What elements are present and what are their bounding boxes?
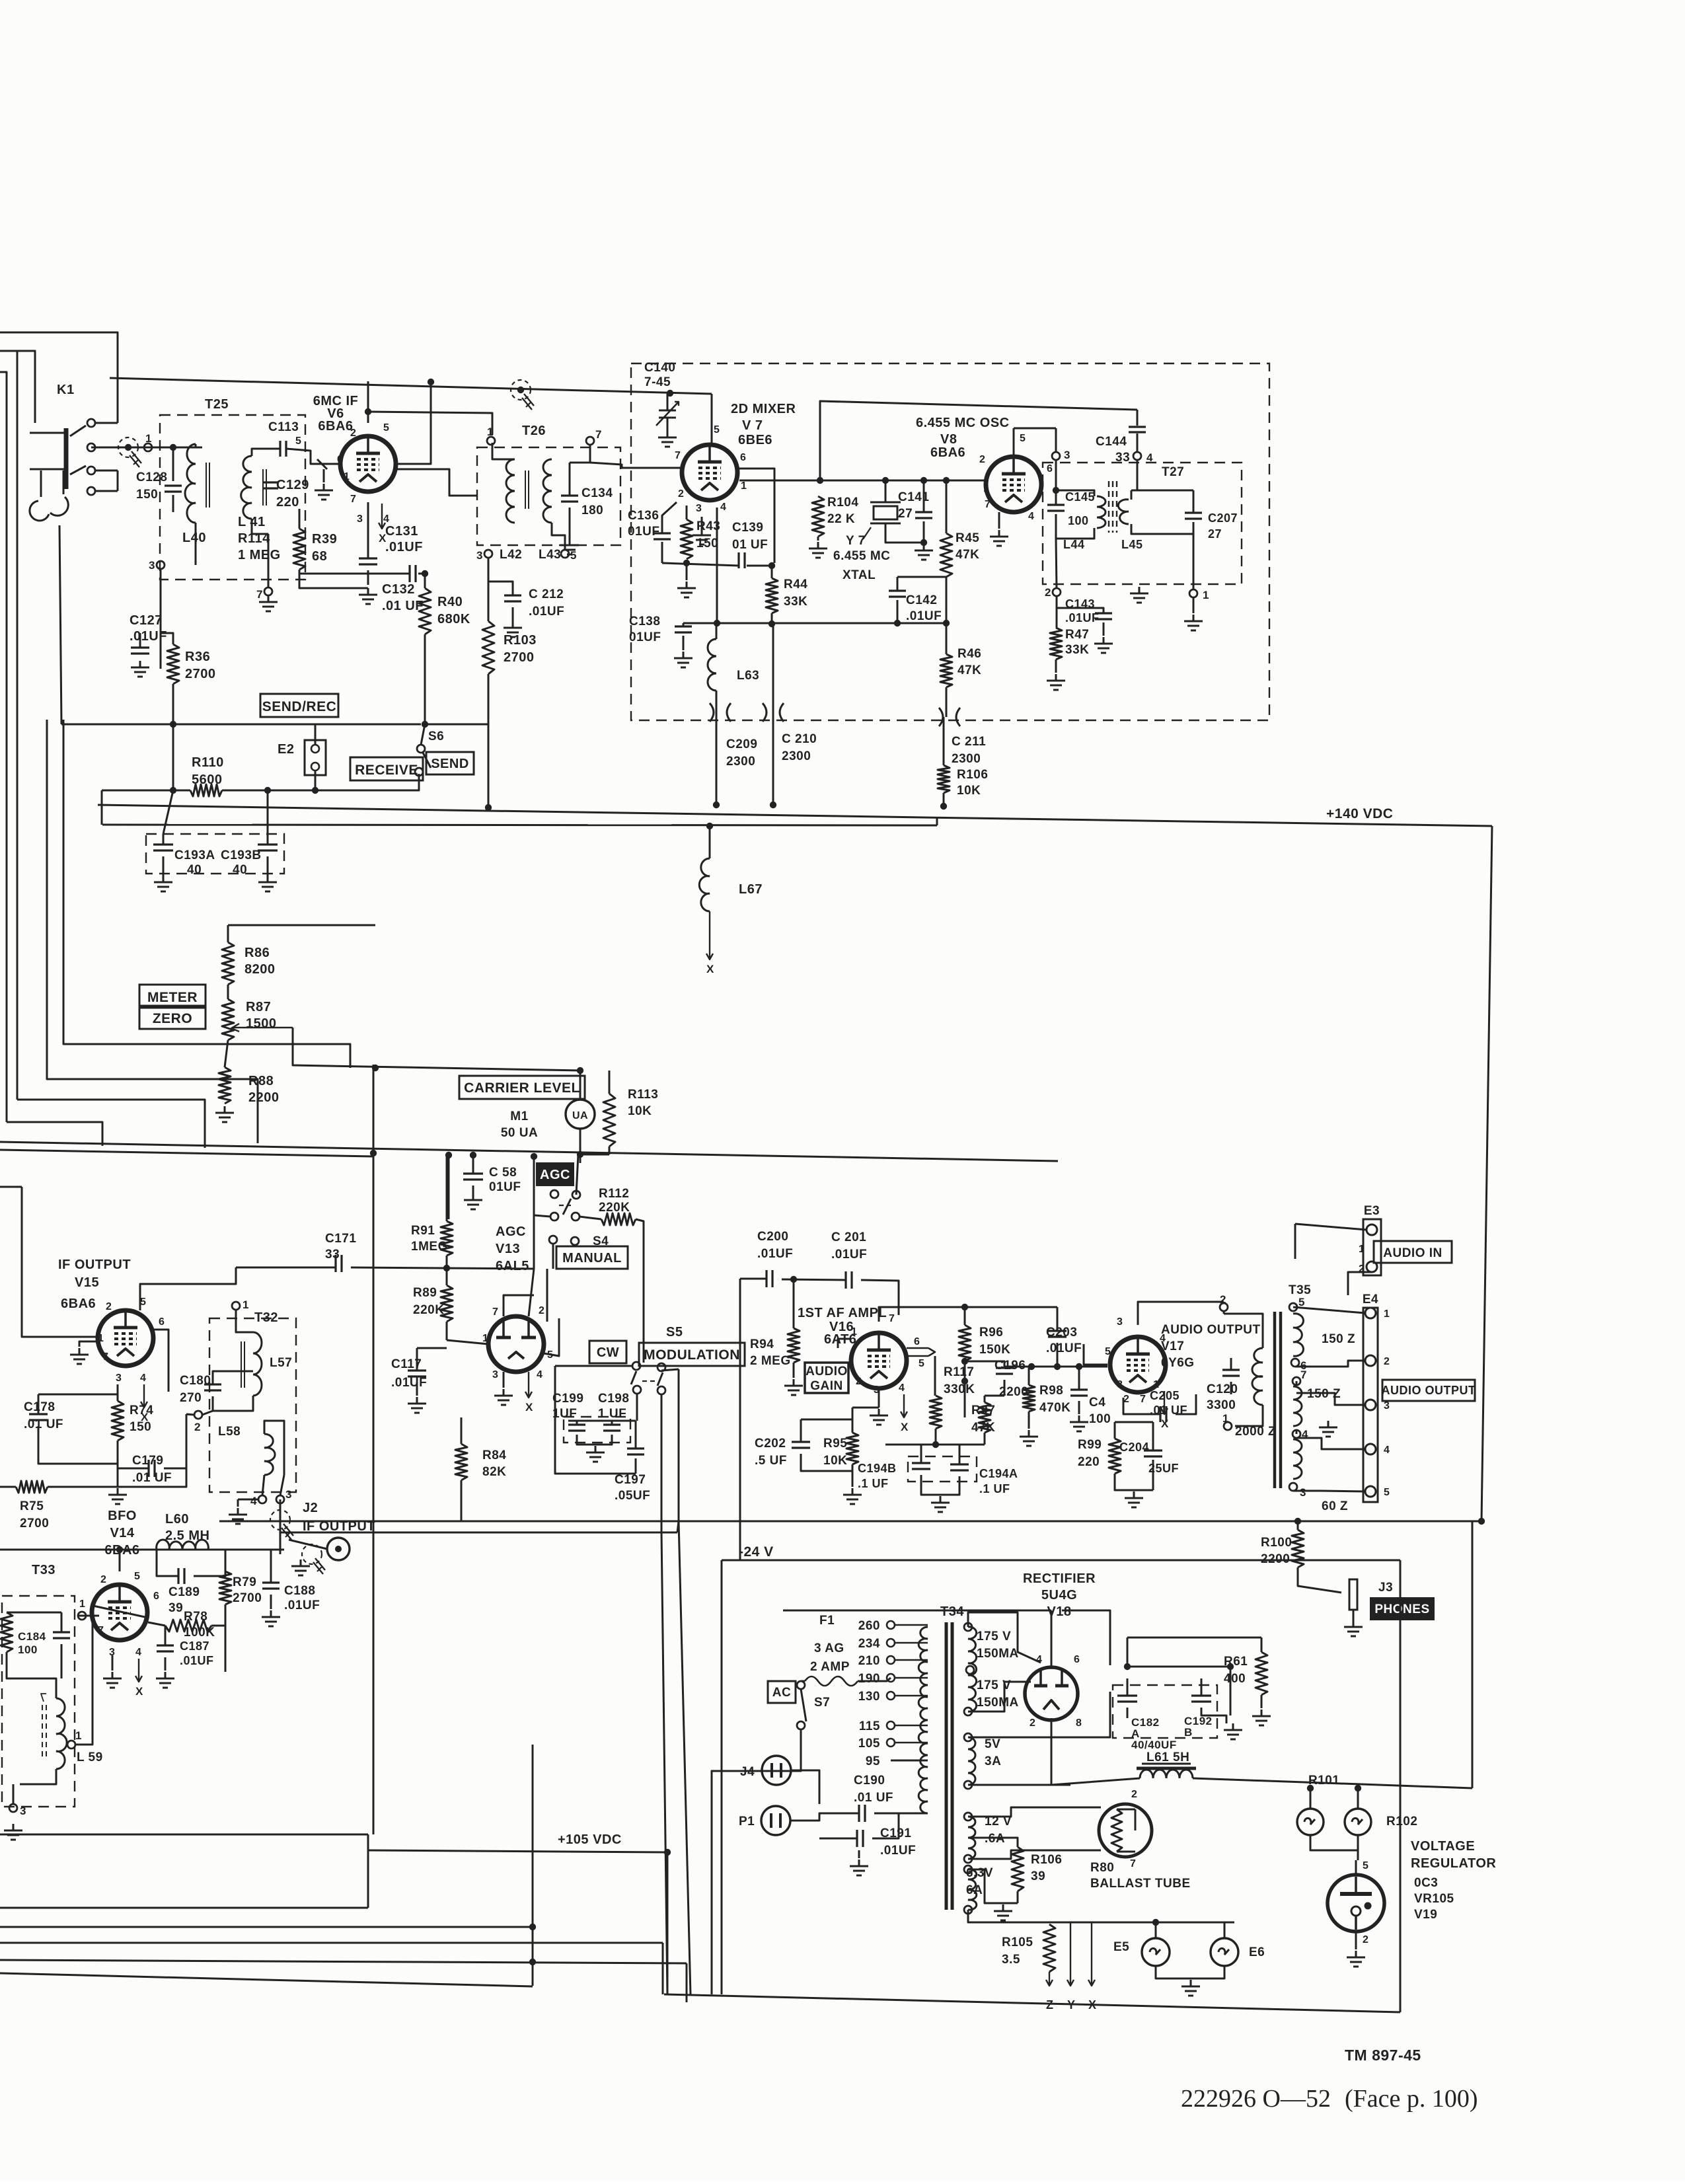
svg-text:2: 2 <box>1030 1717 1035 1729</box>
svg-text:R79: R79 <box>233 1575 256 1589</box>
wire <box>968 1692 1110 1737</box>
wire <box>897 576 946 578</box>
wire <box>61 1612 63 1632</box>
svg-text:6: 6 <box>914 1336 920 1347</box>
grommet J2 wire A <box>270 1510 293 1540</box>
ground V14 cathode <box>103 1672 122 1688</box>
svg-text:4: 4 <box>537 1369 543 1380</box>
svg-text:C 58: C 58 <box>489 1166 517 1180</box>
node Y7 label2 <box>833 549 890 563</box>
svg-text:C199: C199 <box>552 1392 583 1406</box>
note print code <box>1181 2085 1478 2113</box>
terminal T25 pin1 <box>144 432 152 451</box>
node R105 label <box>1002 1936 1033 1967</box>
wire <box>227 925 229 942</box>
svg-text:S6: S6 <box>428 730 444 743</box>
junction <box>1124 1663 1131 1670</box>
svg-text:C 210: C 210 <box>782 732 817 746</box>
svg-text:T25: T25 <box>205 397 229 412</box>
capacitor C196 <box>996 1368 1013 1374</box>
svg-text:150MA: 150MA <box>977 1696 1019 1710</box>
capacitor C127 <box>131 648 149 654</box>
terminal T34 ct <box>966 1666 974 1674</box>
wire <box>211 1625 225 1627</box>
switch label MODULATION <box>639 1343 745 1366</box>
svg-text:10K: 10K <box>957 784 981 798</box>
node C200 label <box>757 1230 793 1261</box>
wire <box>635 1458 637 1474</box>
svg-text:C194B: C194B <box>858 1462 897 1475</box>
svg-text:AUDIO: AUDIO <box>805 1365 848 1378</box>
node V7 designation 3 <box>738 433 772 447</box>
capacitor C182A <box>1117 1696 1137 1702</box>
wire <box>503 1372 505 1388</box>
svg-text:C179: C179 <box>132 1454 163 1468</box>
wire <box>118 1468 149 1470</box>
svg-text:C145: C145 <box>1065 490 1095 504</box>
node 0C3 label <box>1414 1876 1454 1922</box>
wire <box>280 1499 281 1537</box>
node 150Z top label <box>1322 1332 1355 1346</box>
capacitor C134 <box>561 496 578 502</box>
wire <box>923 521 925 543</box>
wire <box>38 1426 118 1464</box>
terminal T34 sec bot <box>964 1708 972 1715</box>
wire <box>1176 1394 1196 1414</box>
svg-text:METER: METER <box>147 990 198 1005</box>
node C139 label <box>732 521 768 552</box>
resistor R106 <box>938 765 950 793</box>
svg-text:3: 3 <box>696 503 702 514</box>
wire <box>552 1244 554 1269</box>
terminal T26 pin3 <box>476 549 492 562</box>
diode plate R117 tie <box>907 1348 935 1356</box>
junction <box>683 560 690 566</box>
svg-text:J2: J2 <box>303 1501 318 1515</box>
svg-text:3: 3 <box>492 1369 498 1380</box>
svg-text:L58: L58 <box>218 1425 241 1439</box>
junction <box>961 1304 968 1310</box>
junction <box>706 823 713 829</box>
wire <box>7 1652 56 1698</box>
wire <box>609 1071 611 1094</box>
wire <box>576 1421 578 1425</box>
svg-text:150MA: 150MA <box>977 1647 1019 1661</box>
svg-text:4: 4 <box>1028 511 1034 522</box>
capacitor C4 <box>1070 1390 1088 1396</box>
wire <box>965 1306 1057 1308</box>
wire <box>417 1347 447 1349</box>
wire <box>267 834 269 845</box>
wire <box>1261 1695 1263 1708</box>
ground R104 <box>809 542 827 558</box>
wire <box>102 825 937 825</box>
wire <box>885 480 887 502</box>
svg-text:1: 1 <box>1359 1244 1365 1255</box>
wire <box>1057 608 1104 613</box>
svg-text:7: 7 <box>492 1306 498 1318</box>
node R91 label <box>411 1224 448 1254</box>
arrow X V17 <box>1161 1391 1169 1430</box>
wire <box>368 412 492 435</box>
svg-text:220: 220 <box>1078 1455 1100 1469</box>
resistor R99 <box>1109 1439 1121 1474</box>
terminal T34 63V a <box>964 1865 972 1873</box>
junction <box>667 390 673 396</box>
wire <box>1056 490 1094 496</box>
capacitor C187 <box>157 1645 174 1651</box>
wire <box>1131 490 1133 500</box>
svg-text:220K: 220K <box>599 1201 630 1215</box>
node C131 label <box>385 524 423 554</box>
wire <box>0 1142 1058 1161</box>
wire <box>532 1745 534 1986</box>
wire <box>885 523 924 543</box>
svg-text:2: 2 <box>106 1301 112 1312</box>
node K1 label <box>57 383 75 397</box>
svg-text:2 MEG: 2 MEG <box>750 1354 791 1368</box>
capacitor C113 <box>280 441 286 457</box>
node C191 label <box>880 1826 916 1858</box>
node C182B label <box>1184 1715 1213 1739</box>
wire <box>1051 1778 1140 1785</box>
capacitor C120 <box>1222 1370 1240 1376</box>
svg-text:1: 1 <box>1222 1412 1229 1425</box>
wire <box>165 1626 167 1645</box>
svg-text:2: 2 <box>350 428 356 439</box>
svg-text:IF OUTPUT: IF OUTPUT <box>58 1258 131 1272</box>
svg-text:R106: R106 <box>957 768 988 782</box>
svg-text:27: 27 <box>898 507 913 521</box>
wire <box>148 1622 165 1626</box>
svg-text:R91: R91 <box>411 1224 435 1238</box>
wire <box>101 790 103 825</box>
ground C134 <box>560 539 579 554</box>
inductor L45 <box>1118 500 1129 524</box>
node L44 label <box>1063 538 1085 551</box>
wire <box>793 1363 795 1378</box>
wire <box>367 502 369 558</box>
capacitor C197 <box>627 1449 644 1454</box>
node R117 value <box>944 1382 975 1396</box>
node Y7 label <box>846 534 866 548</box>
wire <box>667 393 669 410</box>
resistor R106b <box>1012 1847 1024 1891</box>
svg-text:1: 1 <box>1384 1308 1390 1320</box>
capacitor C117 <box>408 1371 426 1376</box>
wire <box>686 506 688 519</box>
svg-text:Y 7: Y 7 <box>846 534 866 548</box>
wire <box>1261 1638 1263 1652</box>
terminal T26 pin1 <box>487 426 495 445</box>
wire <box>686 1963 688 2002</box>
tube V17 6Y6G <box>1110 1337 1166 1392</box>
svg-text:.01UF: .01UF <box>831 1248 867 1261</box>
wire <box>897 577 899 591</box>
svg-text:CARRIER LEVEL: CARRIER LEVEL <box>464 1080 580 1096</box>
node C4 label <box>1089 1396 1111 1426</box>
wire <box>661 1369 679 1371</box>
capacitor C205 <box>1160 1406 1166 1422</box>
ground E5 E6 <box>1181 1980 1200 1996</box>
wire <box>416 1348 418 1371</box>
switch S7 <box>797 1681 830 1729</box>
svg-text:3: 3 <box>476 549 483 562</box>
junction <box>1227 1663 1234 1670</box>
svg-text:01UF: 01UF <box>629 630 661 644</box>
wire <box>968 1850 1101 1859</box>
wire <box>580 1154 609 1156</box>
svg-text:T32: T32 <box>254 1310 278 1325</box>
svg-text:C189: C189 <box>168 1585 200 1599</box>
svg-text:6: 6 <box>1074 1654 1080 1665</box>
svg-text:R45: R45 <box>955 531 979 545</box>
wire <box>771 613 773 624</box>
ground T35 tap <box>1319 1421 1337 1437</box>
wire <box>1055 460 1057 505</box>
wire <box>1013 428 1015 457</box>
svg-text:C187: C187 <box>180 1639 209 1653</box>
node T26 label <box>522 424 546 438</box>
capacitor C178 <box>29 1414 48 1420</box>
capacitor C182 dashed box <box>1113 1685 1217 1738</box>
junction <box>882 477 889 484</box>
wire <box>1055 659 1057 673</box>
wire <box>61 1644 63 1678</box>
wire <box>858 1678 891 1681</box>
wire <box>1017 1891 1019 1903</box>
wire <box>236 1310 253 1332</box>
svg-text:R78: R78 <box>184 1610 207 1624</box>
wire <box>0 1942 663 1944</box>
capacitor C191 <box>857 1830 863 1847</box>
ground C141 <box>915 544 933 560</box>
svg-text:01 UF: 01 UF <box>732 538 768 552</box>
crystal Y7 <box>870 502 901 523</box>
terminal T32 pin3 <box>276 1488 292 1503</box>
wire <box>819 1838 857 1840</box>
capacitor C142 <box>889 591 906 597</box>
svg-text:+140 VDC: +140 VDC <box>1326 806 1393 821</box>
inductor L59 <box>56 1698 67 1769</box>
wire <box>1055 428 1057 452</box>
transformer T34 5V winding <box>968 1737 975 1785</box>
relay K1 upper contacts <box>30 378 118 495</box>
svg-text:6BA6: 6BA6 <box>930 445 965 460</box>
wire <box>17 351 19 1100</box>
svg-text:60 Z: 60 Z <box>1322 1499 1348 1513</box>
wire grid stopper <box>317 459 327 469</box>
svg-text:2: 2 <box>100 1574 106 1585</box>
wire <box>315 724 317 745</box>
junction <box>372 1065 379 1071</box>
wire <box>801 1680 805 1682</box>
node C201 label <box>831 1230 867 1261</box>
node V7 designation 2 <box>742 418 763 433</box>
mixer-oscillator section dashed box <box>631 363 1269 720</box>
wire <box>968 1612 1041 1663</box>
svg-text:R112: R112 <box>599 1187 629 1201</box>
node C204 value <box>1148 1462 1179 1475</box>
wire <box>946 577 948 654</box>
svg-text:L61 5H: L61 5H <box>1146 1751 1189 1764</box>
svg-text:5: 5 <box>1384 1487 1390 1498</box>
wire <box>48 1468 186 1487</box>
svg-text:.01 UF: .01 UF <box>24 1417 63 1431</box>
wire <box>1127 1678 1129 1696</box>
resistor R89 <box>441 1285 453 1322</box>
wire <box>791 1770 819 1804</box>
capacitor C171 <box>336 1255 342 1272</box>
wire <box>17 1100 205 1148</box>
wire <box>117 1384 119 1401</box>
wire <box>0 1960 687 1963</box>
node R78 label <box>184 1610 215 1639</box>
node E6 label <box>1249 1945 1265 1959</box>
svg-text:.01UF: .01UF <box>1046 1341 1082 1355</box>
svg-text:5: 5 <box>714 424 720 435</box>
grommet feed-through at K1 output <box>118 437 141 467</box>
wire <box>964 1307 966 1325</box>
resistor C183 zig <box>1 1612 13 1652</box>
node C145 value <box>1068 514 1089 527</box>
capacitor C143 <box>1095 613 1112 619</box>
junction <box>1028 1363 1035 1370</box>
ground V19 <box>1347 1951 1365 1967</box>
transformer T27 core <box>1109 481 1117 533</box>
wire <box>194 1550 225 1576</box>
wire <box>946 687 948 717</box>
node C143 label <box>1065 597 1095 611</box>
tube V13 6AL5 <box>488 1316 544 1372</box>
junction <box>312 787 318 794</box>
resistor R104 <box>812 496 824 537</box>
svg-text:1: 1 <box>98 1333 104 1344</box>
svg-text:6: 6 <box>153 1591 159 1602</box>
wire <box>1357 1788 1359 1809</box>
svg-text:C202: C202 <box>755 1437 786 1450</box>
wire <box>446 1256 448 1285</box>
wire <box>270 1595 272 1609</box>
node C184 label <box>18 1630 46 1656</box>
svg-text:7: 7 <box>889 1313 895 1324</box>
wire <box>1481 826 1492 1521</box>
wire <box>1115 1474 1153 1490</box>
node C193B label <box>221 848 262 862</box>
svg-text:R36: R36 <box>185 650 210 664</box>
wire <box>280 1532 281 1554</box>
svg-text:X: X <box>901 1421 909 1433</box>
node C179 label <box>132 1454 172 1485</box>
junction <box>932 1441 939 1448</box>
svg-text:C198: C198 <box>598 1392 629 1406</box>
wire <box>1103 622 1105 636</box>
wire <box>1230 1667 1232 1715</box>
connector J4 <box>740 1756 791 1785</box>
svg-text:50 UA: 50 UA <box>501 1126 538 1140</box>
resistor R103 <box>482 621 494 674</box>
node R87 label <box>246 1000 277 1031</box>
wire <box>878 1388 880 1408</box>
svg-text:R87: R87 <box>246 1000 271 1014</box>
svg-text:C129: C129 <box>276 478 309 492</box>
svg-text:5: 5 <box>383 422 389 433</box>
wire <box>636 1219 644 1363</box>
svg-text:C128: C128 <box>136 471 167 484</box>
svg-text:R86: R86 <box>244 946 270 960</box>
svg-text:R89: R89 <box>413 1286 437 1300</box>
svg-text:E4: E4 <box>1363 1293 1378 1306</box>
wire <box>213 1396 253 1411</box>
svg-text:6: 6 <box>159 1316 165 1328</box>
resistor R95 <box>846 1433 858 1464</box>
node T32 label <box>254 1310 278 1325</box>
svg-text:C 212: C 212 <box>529 587 564 601</box>
terminal T25 pin3 <box>149 559 165 572</box>
ground R106 <box>994 1904 1012 1920</box>
wire <box>661 1394 667 1994</box>
svg-text:R88: R88 <box>248 1074 274 1088</box>
wire <box>79 1341 98 1347</box>
svg-text:7: 7 <box>985 499 991 510</box>
wire <box>934 1356 936 1396</box>
svg-text:7: 7 <box>350 494 356 505</box>
connector label AUDIO OUTPUT <box>1382 1380 1476 1401</box>
resistor R98 <box>1023 1385 1035 1412</box>
lamp R101 <box>1297 1809 1324 1835</box>
wire <box>1152 1422 1154 1450</box>
arrow Z <box>1046 1972 1053 1986</box>
svg-text:MODULATION: MODULATION <box>644 1347 740 1363</box>
svg-text:5: 5 <box>1298 1296 1305 1308</box>
ground C138 <box>674 652 693 667</box>
svg-text:130: 130 <box>858 1690 880 1704</box>
transformer T35 secondary windings <box>1293 1314 1304 1479</box>
wire <box>1137 410 1139 426</box>
wire <box>1193 490 1195 513</box>
resistor R39 <box>293 529 305 570</box>
wire oscillator plate bus <box>820 401 1137 480</box>
wire <box>289 1540 327 1549</box>
svg-text:R46: R46 <box>957 647 981 661</box>
junction <box>961 1358 968 1365</box>
svg-text:33: 33 <box>1115 451 1130 465</box>
svg-text:BFO: BFO <box>108 1509 137 1523</box>
svg-text:40/40UF: 40/40UF <box>1131 1739 1177 1751</box>
svg-text:AGC: AGC <box>540 1168 570 1182</box>
node C212 label <box>529 587 564 619</box>
svg-text:3.5: 3.5 <box>1002 1953 1020 1967</box>
svg-text:R99: R99 <box>1078 1438 1102 1452</box>
wire <box>0 1926 534 1928</box>
svg-text:C178: C178 <box>24 1400 55 1414</box>
node L60 label <box>165 1512 209 1543</box>
resistor R94 <box>788 1328 800 1363</box>
wire <box>1355 1860 1357 1875</box>
wire <box>580 1071 581 1100</box>
transformer T34 rect winding <box>968 1627 977 1712</box>
wire <box>252 519 268 534</box>
svg-text:100: 100 <box>18 1643 38 1656</box>
capacitor C189 <box>178 1568 184 1584</box>
svg-text:4: 4 <box>1384 1445 1390 1456</box>
svg-text:.1 UF: .1 UF <box>979 1482 1010 1495</box>
svg-text:R117: R117 <box>944 1365 974 1379</box>
wire <box>1062 1610 1110 1665</box>
capacitor bank C193 box <box>146 834 284 874</box>
tube V14 6BA6 <box>92 1585 147 1640</box>
wire <box>7 1122 102 1146</box>
